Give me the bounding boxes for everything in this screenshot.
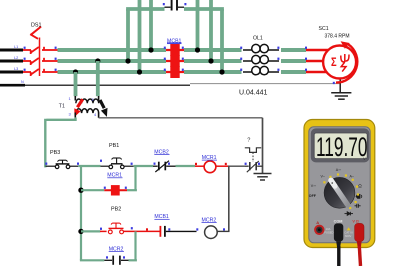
pin OL1 terminals [240, 47, 279, 71]
svg-text:Ω: Ω [358, 183, 362, 188]
svg-text:V~: V~ [321, 175, 326, 179]
wire branch2 left green [81, 259, 104, 260]
contact MCR1 NO closed [104, 185, 127, 195]
MCB1 contact label [154, 214, 169, 220]
contactor MCB1 pole 1 [166, 44, 184, 56]
multimeter icon sound [356, 194, 362, 198]
svg-text:PB3: PB3 [50, 150, 60, 156]
contact MCB2 NC [153, 161, 176, 172]
multimeter body [304, 120, 375, 248]
node junction phase3 left [137, 69, 142, 74]
wire T1 pin2 stub [98, 96, 100, 101]
wire phase1 DS1 to MCB1 [58, 48, 167, 52]
ground control [254, 174, 272, 181]
pin MCB1 terminals [164, 47, 184, 71]
wire phase1 MCB1 to OL1 [184, 48, 242, 52]
svg-text:OL1: OL1 [253, 36, 263, 42]
pin MCB2 terminals [154, 163, 156, 165]
probe lead red [359, 246, 360, 266]
contact MCR2 NO [104, 256, 133, 265]
wire top bus right of capacitor [184, 7, 224, 11]
svg-text:V Ω: V Ω [352, 220, 359, 224]
svg-text:10A: 10A [326, 227, 331, 231]
wire rail to OL aux contact [229, 165, 245, 167]
wire top bus left of capacitor [126, 7, 164, 11]
pin motor terminals [305, 47, 307, 71]
wire riser phase3 left cut off top [138, 0, 142, 72]
motor rotation arrow [336, 41, 357, 82]
wire N neutral supply [0, 84, 25, 87]
pin motor ground [333, 82, 335, 84]
wire red into PB2 [100, 230, 107, 232]
svg-text:V⎓: V⎓ [311, 184, 316, 188]
wire rung2 red from rail [81, 230, 100, 232]
wire riser phase1 right cut off top [196, 0, 200, 50]
contact MCB1 NO [160, 226, 196, 237]
coil MCR2 [205, 226, 218, 239]
multimeter jack V-ohm with red plug [352, 220, 364, 249]
node junction phase1 left [148, 47, 153, 52]
wire red MCR1 coil to rail [216, 165, 230, 167]
wire phase2 DS1 to MCB1 [58, 59, 167, 63]
pin OL aux terminals [245, 163, 247, 165]
svg-text:SC1: SC1 [319, 26, 329, 32]
node junction phase2 T1 tap [95, 58, 100, 63]
wire red phase2 into motor [306, 60, 335, 62]
wire earth line to motor [190, 83, 340, 85]
multimeter jack A [315, 220, 323, 234]
wire riser to T1 primary left [74, 72, 78, 96]
wire T1 pin1 stub [74, 96, 76, 101]
node junction phase2 left [125, 58, 130, 63]
wire phase2 OL1 to motor [281, 59, 306, 63]
wire phase1 OL1 to motor [281, 48, 306, 52]
wire phase3 MCB1 to OL1 [184, 70, 242, 74]
multimeter icon capacitor [355, 204, 361, 208]
wire right branch vertical rung2 [134, 231, 136, 260]
svg-text:PB1: PB1 [109, 143, 119, 149]
svg-text:T1: T1 [59, 103, 65, 109]
svg-text:COM: COM [334, 220, 343, 224]
MCR1 coil label [202, 155, 217, 161]
overload relay OL1 pole 2 [243, 55, 279, 63]
pin MCR1 coil left red [195, 163, 197, 165]
wire phase2 MCB1 to OL1 [184, 59, 242, 63]
wire riser phase2 left to top bus [126, 9, 130, 61]
pin MCR1 coil right [225, 163, 227, 165]
pin MCB1 contact terminals [146, 228, 148, 230]
multimeter LCD [311, 128, 370, 162]
svg-text:OFF: OFF [309, 194, 317, 198]
wire MCR2 coil to right rail [217, 230, 229, 232]
wire PB3 to PB1 [78, 165, 100, 167]
node junction phase3 T1 tap [73, 69, 78, 74]
svg-text:L2: L2 [14, 56, 18, 60]
svg-text:L1: L1 [14, 45, 18, 49]
svg-text:U.04.441: U.04.441 [239, 90, 268, 97]
wire red into MCR1 coil [195, 165, 204, 167]
wire right branch vertical rung1 [134, 166, 136, 190]
wire red phase1 into motor [306, 49, 335, 51]
multimeter warning triangle [347, 227, 351, 230]
probe lead black [337, 246, 340, 266]
wire T1 secondary right gray [98, 113, 100, 118]
wire red phase3 into motor [306, 71, 335, 73]
wire L2 phase supply [0, 60, 23, 63]
svg-text:FUSED: FUSED [324, 230, 333, 234]
contactor MCB1 pole 3 [166, 66, 184, 78]
svg-text:PB2: PB2 [111, 207, 121, 213]
wire rung2 red PB2 to MCB1 contact [123, 230, 159, 232]
wire T1 secondary left green [46, 118, 75, 120]
pin MCR1 contact terminals [104, 187, 106, 189]
wire riser to T1 primary right [96, 61, 100, 96]
wire riser phase3 right to top bus [220, 9, 224, 72]
probe red on T1 [74, 99, 82, 117]
multimeter icon diode [345, 212, 354, 216]
MCR1 contact label [107, 173, 122, 179]
MCB1 label [167, 38, 182, 44]
node junction phase3 right [219, 69, 224, 74]
pin PB1 terminals [100, 160, 102, 162]
svg-text:378.4 RPM: 378.4 RPM [325, 34, 350, 40]
disconnect switch DS1 [23, 27, 58, 76]
pushbutton PB3 [46, 160, 79, 168]
wire T1 secondary right gray [99, 117, 263, 119]
wire PB1 to MCB2 contact [134, 165, 153, 167]
ground motor [331, 93, 351, 99]
wire control left vertical [80, 166, 82, 260]
wire ground rail right [262, 118, 264, 173]
multimeter dial ticks [323, 173, 359, 209]
svg-text:Σ: Σ [331, 56, 337, 69]
multimeter dial knob [324, 177, 355, 208]
wire neutral run [25, 84, 190, 86]
wire branch2 right green [129, 259, 137, 261]
pin MCR2 coil terminals [196, 228, 198, 230]
wire MCB2 to MCR1 coil [176, 165, 196, 167]
MCR2 coil label [202, 217, 217, 223]
wire right rail down [228, 166, 230, 232]
wire phase3 OL1 to motor [281, 70, 306, 74]
overload relay OL1 pole 3 [243, 66, 279, 74]
svg-text:?: ? [247, 138, 250, 144]
multimeter dial labels [309, 168, 362, 198]
svg-text:119.70: 119.70 [316, 131, 368, 162]
node junction branch1 left [78, 188, 83, 193]
wire L3 phase supply [0, 71, 23, 74]
pin capacitor terminals [163, 3, 165, 5]
wire phase3 DS1 to MCB1 [58, 70, 167, 74]
svg-text:N: N [21, 80, 24, 84]
wire L1 phase supply [0, 49, 23, 52]
pin MCR2 contact terminals [106, 256, 108, 258]
transformer T1 [76, 99, 99, 113]
multimeter jack COM with black plug [334, 220, 344, 249]
MCR2 contact label [109, 246, 124, 252]
svg-text:A: A [316, 220, 319, 225]
motor SC1 ground stub [339, 78, 341, 93]
MCB2 label [154, 149, 169, 155]
node junction phase2 right [208, 58, 213, 63]
motor SC1 [323, 46, 356, 79]
svg-text:L3: L3 [14, 67, 18, 71]
pin T1 numbers [69, 96, 98, 117]
wire branch1 left green [81, 189, 104, 191]
wire control left rail down [45, 119, 46, 167]
coil MCR1 [204, 161, 216, 173]
wire riser phase1 left cut off top [149, 0, 153, 50]
multimeter small prints [324, 227, 352, 238]
svg-text:DS1: DS1 [31, 23, 42, 29]
pin PB2 terminals [100, 228, 102, 230]
capacitor C1 top [165, 0, 185, 11]
wire riser phase2 right cut off top [209, 0, 213, 61]
svg-text:600V: 600V [345, 234, 351, 238]
contactor MCB1 pole 2 [166, 55, 184, 67]
pushbutton PB2 pressed [108, 223, 123, 234]
wire branch1 right green [127, 189, 137, 191]
pin DS1 terminals [24, 47, 57, 71]
pin PB3 terminals [45, 163, 47, 165]
node junction phase1 right [195, 47, 200, 52]
wire T1 secondary left to control rail [74, 113, 76, 118]
node junction rung2 left [78, 229, 83, 234]
overload relay OL1 pole 1 [243, 44, 279, 52]
svg-text:A⎓: A⎓ [336, 168, 341, 172]
svg-text:A~: A~ [350, 175, 355, 179]
pushbutton PB1 [101, 158, 134, 169]
probe black on T1 [100, 100, 108, 117]
overload aux contact OL [245, 148, 263, 172]
